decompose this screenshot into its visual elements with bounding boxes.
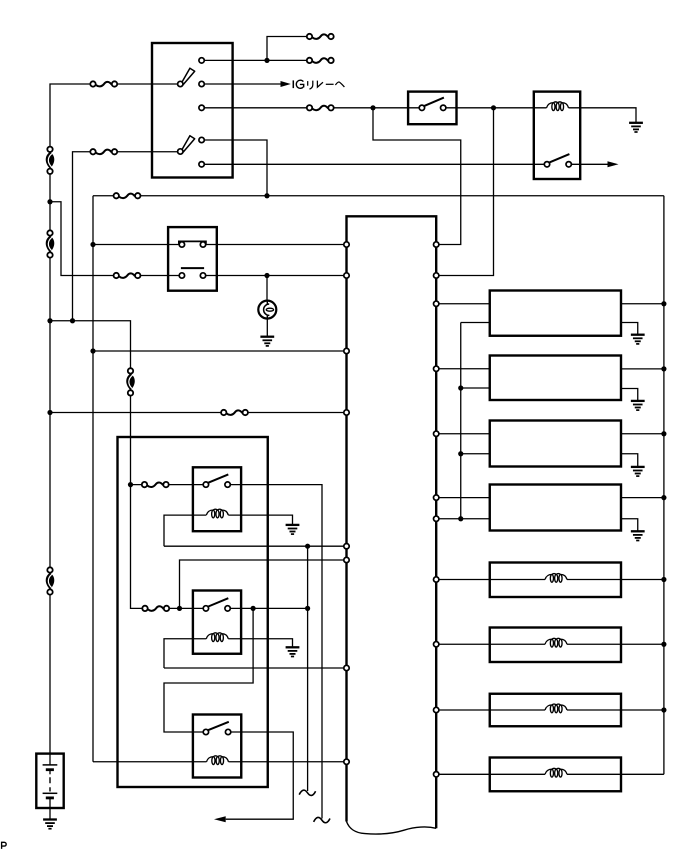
coil in box C1 [545,574,567,583]
ground G4 (B3) [631,467,645,476]
wire: relay RL3 coil row from x=93 to central box left terminal [93,761,344,763]
fuse F5a relay RL1 feed [142,482,169,487]
fusible link FL1 [46,147,55,174]
wire: ACC feed y=151.75 into ignition switch [73,152,178,321]
connector block CB [168,227,217,291]
wire: SW1 output to relay R0 coil [446,107,547,109]
component box B3 [490,421,621,467]
fuse F1 (y=84) [90,81,117,86]
wire: x=460.75 vertical chain [460,323,462,519]
wire: connector row1 output to central box left terminal [206,244,344,246]
wire: B4 lower left from central terminal y=518.75 [439,518,490,520]
ground G6 (relay RL1 coil) [286,525,300,534]
ignition terminal row5 [199,162,204,167]
wire: coil row C1 y=579.5 [439,579,664,581]
SECTION BOXES [36,43,621,828]
ignition terminal row3 [199,105,204,110]
central box left terminals [344,242,349,247]
relay RL1 box [193,467,241,531]
wire: relay RL3 output down x=293.25 to arrow [226,732,294,819]
connector block contacts row2 [179,273,184,278]
connector block row1 bridge bar [179,241,206,244]
wire: coil row C3 y=710 [439,709,664,711]
junction dots [264,58,269,63]
ignition terminal row2 [199,81,204,86]
junction/relay enclosure box [118,437,268,787]
ground G5 (B4) [631,531,645,540]
fuse F5b relay RL2 feed [142,606,169,611]
relay RL2 contacts [203,606,208,611]
ignition terminal row1 [199,58,204,63]
wire: central box right terminal y=497.6 to B4 [439,497,490,499]
coil of relay RL1 [206,509,228,518]
arrow from relay R0 output [608,161,619,167]
arrow from relay RL3 output (left) [214,816,226,822]
wire: B1 ground stub [621,323,638,335]
wire: relay RL1 feed through fuse F5a [131,484,204,486]
wire: B2 output to right bus [621,368,664,370]
coil of relay RL3 [207,756,229,765]
ignition switch blade 2 [181,136,194,152]
wire: B4 output to right bus [621,497,664,499]
wire: B3 ground stub [621,454,638,467]
wire: coil row C4 y=774.3 [439,773,664,775]
label: katakana レ [317,81,323,88]
wire: left vertical bus x=50 between fusible links down to battery [49,171,51,753]
wire: relay R0 coil right to ground [569,108,637,123]
relay R0 lever [549,154,569,162]
wire: central box right terminal y=433.75 to B3 [439,433,490,435]
fuse F3 (y=275.5) [114,273,141,278]
wire: ignition row3 y=107.8 through fuse F9 to switch SW1 [204,107,419,109]
central connector bus box (wavy bottom) [347,216,437,828]
ignition pivot 2 [178,149,183,154]
wire: B2 lower left from x=460.75 [461,387,490,389]
SW1 contact right [441,105,446,110]
wire: x=267 drop from ignition row4 to y=195.75 [204,140,267,196]
ground G1 (relay R0 coil) [629,123,643,132]
wire: vertical x=307.6 from y=546.2 to off-page break [307,546,309,791]
wire: branch x=179.5 up to y=560 to central box left terminal [180,560,344,608]
coil box C3 [490,694,621,727]
fuse F4 (y=195.75) [114,193,141,198]
coil of relay RL2 [206,633,228,642]
wire: central box right terminal y=303.75 to B1 [439,303,490,305]
SECTION TERMINALS AND JUNCTIONS [47,58,666,777]
ground G3 (B2) [631,401,645,410]
wire: relay RL2 coil right to ground [228,639,292,648]
switch box SW1 [408,92,456,125]
central box wavy bottom edge [347,822,437,835]
ground G9 (battery) [43,820,57,829]
battery box [36,754,63,808]
wire: vertical x=93 from y=195.75 down to y=761.75 [92,196,94,762]
wire: B2 ground stub [621,389,638,401]
wire: lamp to ground [266,319,268,337]
wire: connector row2 output to central box terminal, lamp branch at x=267 [206,275,344,277]
relay R0 contact right [566,162,571,167]
component box B1 [490,291,621,336]
wire: ignition row1 y=60.4 to fuse F7, branch up to fuse F8 [204,37,306,61]
coil box C4 [490,758,621,792]
wire: relay RL1 output to x=322 down to off-page break [230,485,322,819]
coil box C1 [490,563,621,598]
wire: B4 ground stub [621,519,638,532]
coil in box C2 [545,638,567,647]
wire: branch from x=50 at y=201.75 down x=61 to fuse row y=275.5 [50,202,114,276]
ignition terminal row4 [199,137,204,142]
wire: relay RL1 coil left loop to y=546.2 to central box left terminal [164,515,344,546]
fuse F7 (row1 stub) [307,58,334,63]
fuse F6 (y=412.5) [221,410,248,415]
component box B4 [490,485,621,531]
SW1 lever [424,98,444,106]
fusible link FL3 [46,567,55,594]
wire: relay R0 switch output to arrow [571,163,608,165]
wire: chain from relay RL2 output down x=253.1, loop to relay RL3 input [164,608,253,732]
wire: branch from x=493.5 down into central box right terminal y=275.5 [439,108,494,276]
battery cells [43,754,58,798]
coil box C2 [490,628,621,663]
wire: relay RL1 coil right to ground [228,515,292,525]
relay RL1 lever [208,474,228,482]
fusible link FL4 [126,368,135,395]
wire: central box right terminal y=368.75 to B2 [439,368,490,370]
wire: B1 output to right bus [621,303,664,305]
relay RL3 box [193,715,241,778]
coil in box C3 [545,704,567,713]
wire: coil row C2 y=644.25 [439,643,664,645]
wire: B3 lower left from x=460.75 [461,453,490,455]
ground G7 (relay RL2 coil) [286,647,300,656]
fuse F8 (top stub) [307,34,334,39]
page label P [2,842,7,849]
label: hiragana へ [335,82,344,87]
relay R0 box [534,92,580,179]
wire: right bus vertical x=663.9 [663,196,665,775]
relay RL3 contacts [203,729,208,734]
relay R0 contact left [544,162,549,167]
wire: relay RL2 feed after fuse F5b, junction x=179.5 [169,607,203,609]
wire: battery to ground [49,798,51,820]
label: katakana long vowel bar ー [326,83,334,85]
ignition switch assembly box [152,43,233,178]
label: IG (latin part of IGリレーへ) [293,80,303,88]
relay RL2 lever [208,598,228,606]
wire: ignition row5 y=164.3 to relay R0 switch [204,163,544,165]
relay RL2 box [193,591,241,654]
ignition switch blade 1 [181,68,194,84]
lamp symbol [258,301,276,319]
wire: ignition row2 y=84 to IG relay arrow [204,83,281,85]
ground G2 (B1) [631,335,645,344]
arrow to IG relay [281,81,291,87]
label: katakana リ [308,81,313,90]
wire: y=351 from x=93 to central box left terminal [93,350,344,352]
ground G8 (lamp) [260,337,274,346]
connector block row2 open bar [181,267,204,269]
ignition pivot 1 [178,81,183,86]
wire: B3 output to right bus [621,433,664,435]
wire: connector row1 feed from x=93 [93,244,179,246]
connector block contacts row1 [179,242,184,247]
wire: lamp feed drop x=267 [266,276,268,301]
wire: main horizontal y=195.75 from x=93 to right bus [93,195,664,197]
wire break tilde on x=322 [314,817,330,822]
component box B2 [490,356,621,401]
central box right terminals [434,242,439,247]
wire: left feed bus top, y=84 into ignition switch [50,84,178,149]
relay RL3 lever [208,722,229,730]
wire: x=130.5 vertical below fusible link to relay2 feed corner [131,393,143,609]
wire: B1 lower left from x=460.75 vertical [461,322,490,324]
wire break tilde on x=307.6 [299,790,315,795]
wire: relay RL2 coil left loop to y=668 to central box left terminal [164,639,344,668]
coil in box C4 [545,768,567,777]
wire: fuse F3 output into connector block row 2 [140,275,179,277]
fuse F9 (row3) [307,105,334,110]
fusible link FL2 [46,230,55,257]
wire: relay RL2 output to junction x=307.6 [230,607,307,609]
fuse F2 (y=151.75) [90,149,117,154]
SW1 contact left [419,105,424,110]
relay RL1 contacts [203,482,208,487]
wire: y=320.75 from x=50 to x=130.5 [50,321,131,371]
wire: y=412.5 from x=50 through fuse F6 to central box left terminal [50,412,344,414]
wire: branch from x=373 down to x=460.75 into central box right terminal y=244.5 [373,108,461,245]
coil of relay R0 [547,102,569,111]
